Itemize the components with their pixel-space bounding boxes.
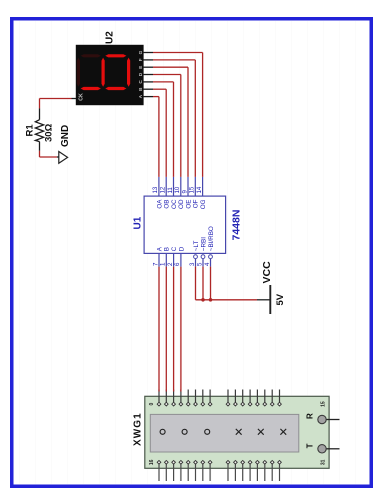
svg-text:14: 14 [196,186,203,193]
U1 control pins ~LT ~RBI ~BI/RBO (pins 3 5 4, active-low bubbles) [189,226,215,267]
segment D [127,58,130,87]
segment G [102,58,105,87]
svg-text:13: 13 [152,186,159,193]
XWG1 output pins 0-15 (right column) [157,390,281,406]
svg-text:G: G [138,50,144,54]
svg-text:R1: R1 [25,124,36,137]
svg-text:30Ω: 30Ω [44,123,55,142]
svg-text:D: D [178,246,185,251]
svg-text:D: D [138,72,144,76]
svg-text:0: 0 [149,402,155,405]
XWG1 input-side pins 16-31 (left column) [157,460,281,481]
U1 input pins A,B,C,D (left side, pins 7 1 2 6) [152,246,185,266]
segment E [105,87,126,90]
resistor R1 30ohm [35,108,43,150]
svg-text:OE: OE [185,200,192,209]
power source VCC 5V [257,261,286,314]
junction dots on VCC wire [201,298,205,302]
XWG1 terminal T [306,443,340,453]
svg-text:~RBI: ~RBI [200,237,207,251]
svg-text:B: B [164,247,171,251]
svg-text:R: R [306,413,315,419]
svg-text:C: C [138,80,144,84]
wire display CK to R1 [40,99,77,109]
svg-text:OC: OC [171,199,178,209]
ground symbol [59,152,68,164]
segment A (unlit) [77,58,80,87]
svg-text:~BI/RBO: ~BI/RBO [208,226,215,251]
wires XWG1 pins 0-3 to U1 inputs A,B,C,D [159,267,181,392]
svg-text:16: 16 [149,459,155,465]
svg-text:31: 31 [321,459,327,465]
svg-text:12: 12 [160,186,167,193]
svg-text:10: 10 [174,186,181,193]
svg-text:OD: OD [178,199,185,209]
svg-text:7448N: 7448N [231,210,243,241]
segment F [81,87,101,90]
svg-text:15: 15 [189,186,196,193]
svg-text:U1: U1 [133,216,144,229]
wires from ~LT ~RBI ~BI/RBO to VCC rail [196,267,258,300]
seven-segment display U2 body [76,45,144,105]
svg-text:T: T [306,443,315,448]
svg-text:CK: CK [79,93,85,101]
svg-text:OA: OA [156,199,163,209]
svg-text:11: 11 [167,187,174,194]
svg-text:B: B [138,87,144,91]
svg-text:XWG1: XWG1 [133,412,144,446]
svg-text:OF: OF [193,199,200,208]
XWG1 terminal R [306,413,340,424]
U1 output pins OA-OG (right side, pins 13 12 11 10 9 15 14) [152,177,207,209]
svg-text:A: A [138,94,144,98]
svg-text:5V: 5V [275,293,286,305]
svg-text:~LT: ~LT [193,240,200,251]
segment C [105,54,126,57]
svg-text:15: 15 [321,401,327,407]
word generator XWG1 body [145,396,329,468]
svg-text:OB: OB [164,200,171,209]
svg-text:C: C [171,246,178,251]
svg-text:U2: U2 [105,31,116,44]
wires U1 outputs to display segments A-G [143,53,202,177]
IC U1 7448N body [144,196,226,253]
svg-text:OG: OG [200,199,207,209]
display pin labels A-G and CK [79,50,144,100]
svg-text:VCC: VCC [261,261,273,284]
wire R1 to ground [40,151,59,157]
svg-text:GND: GND [60,125,71,147]
segment B (unlit) [81,54,101,57]
svg-text:F: F [138,58,144,61]
